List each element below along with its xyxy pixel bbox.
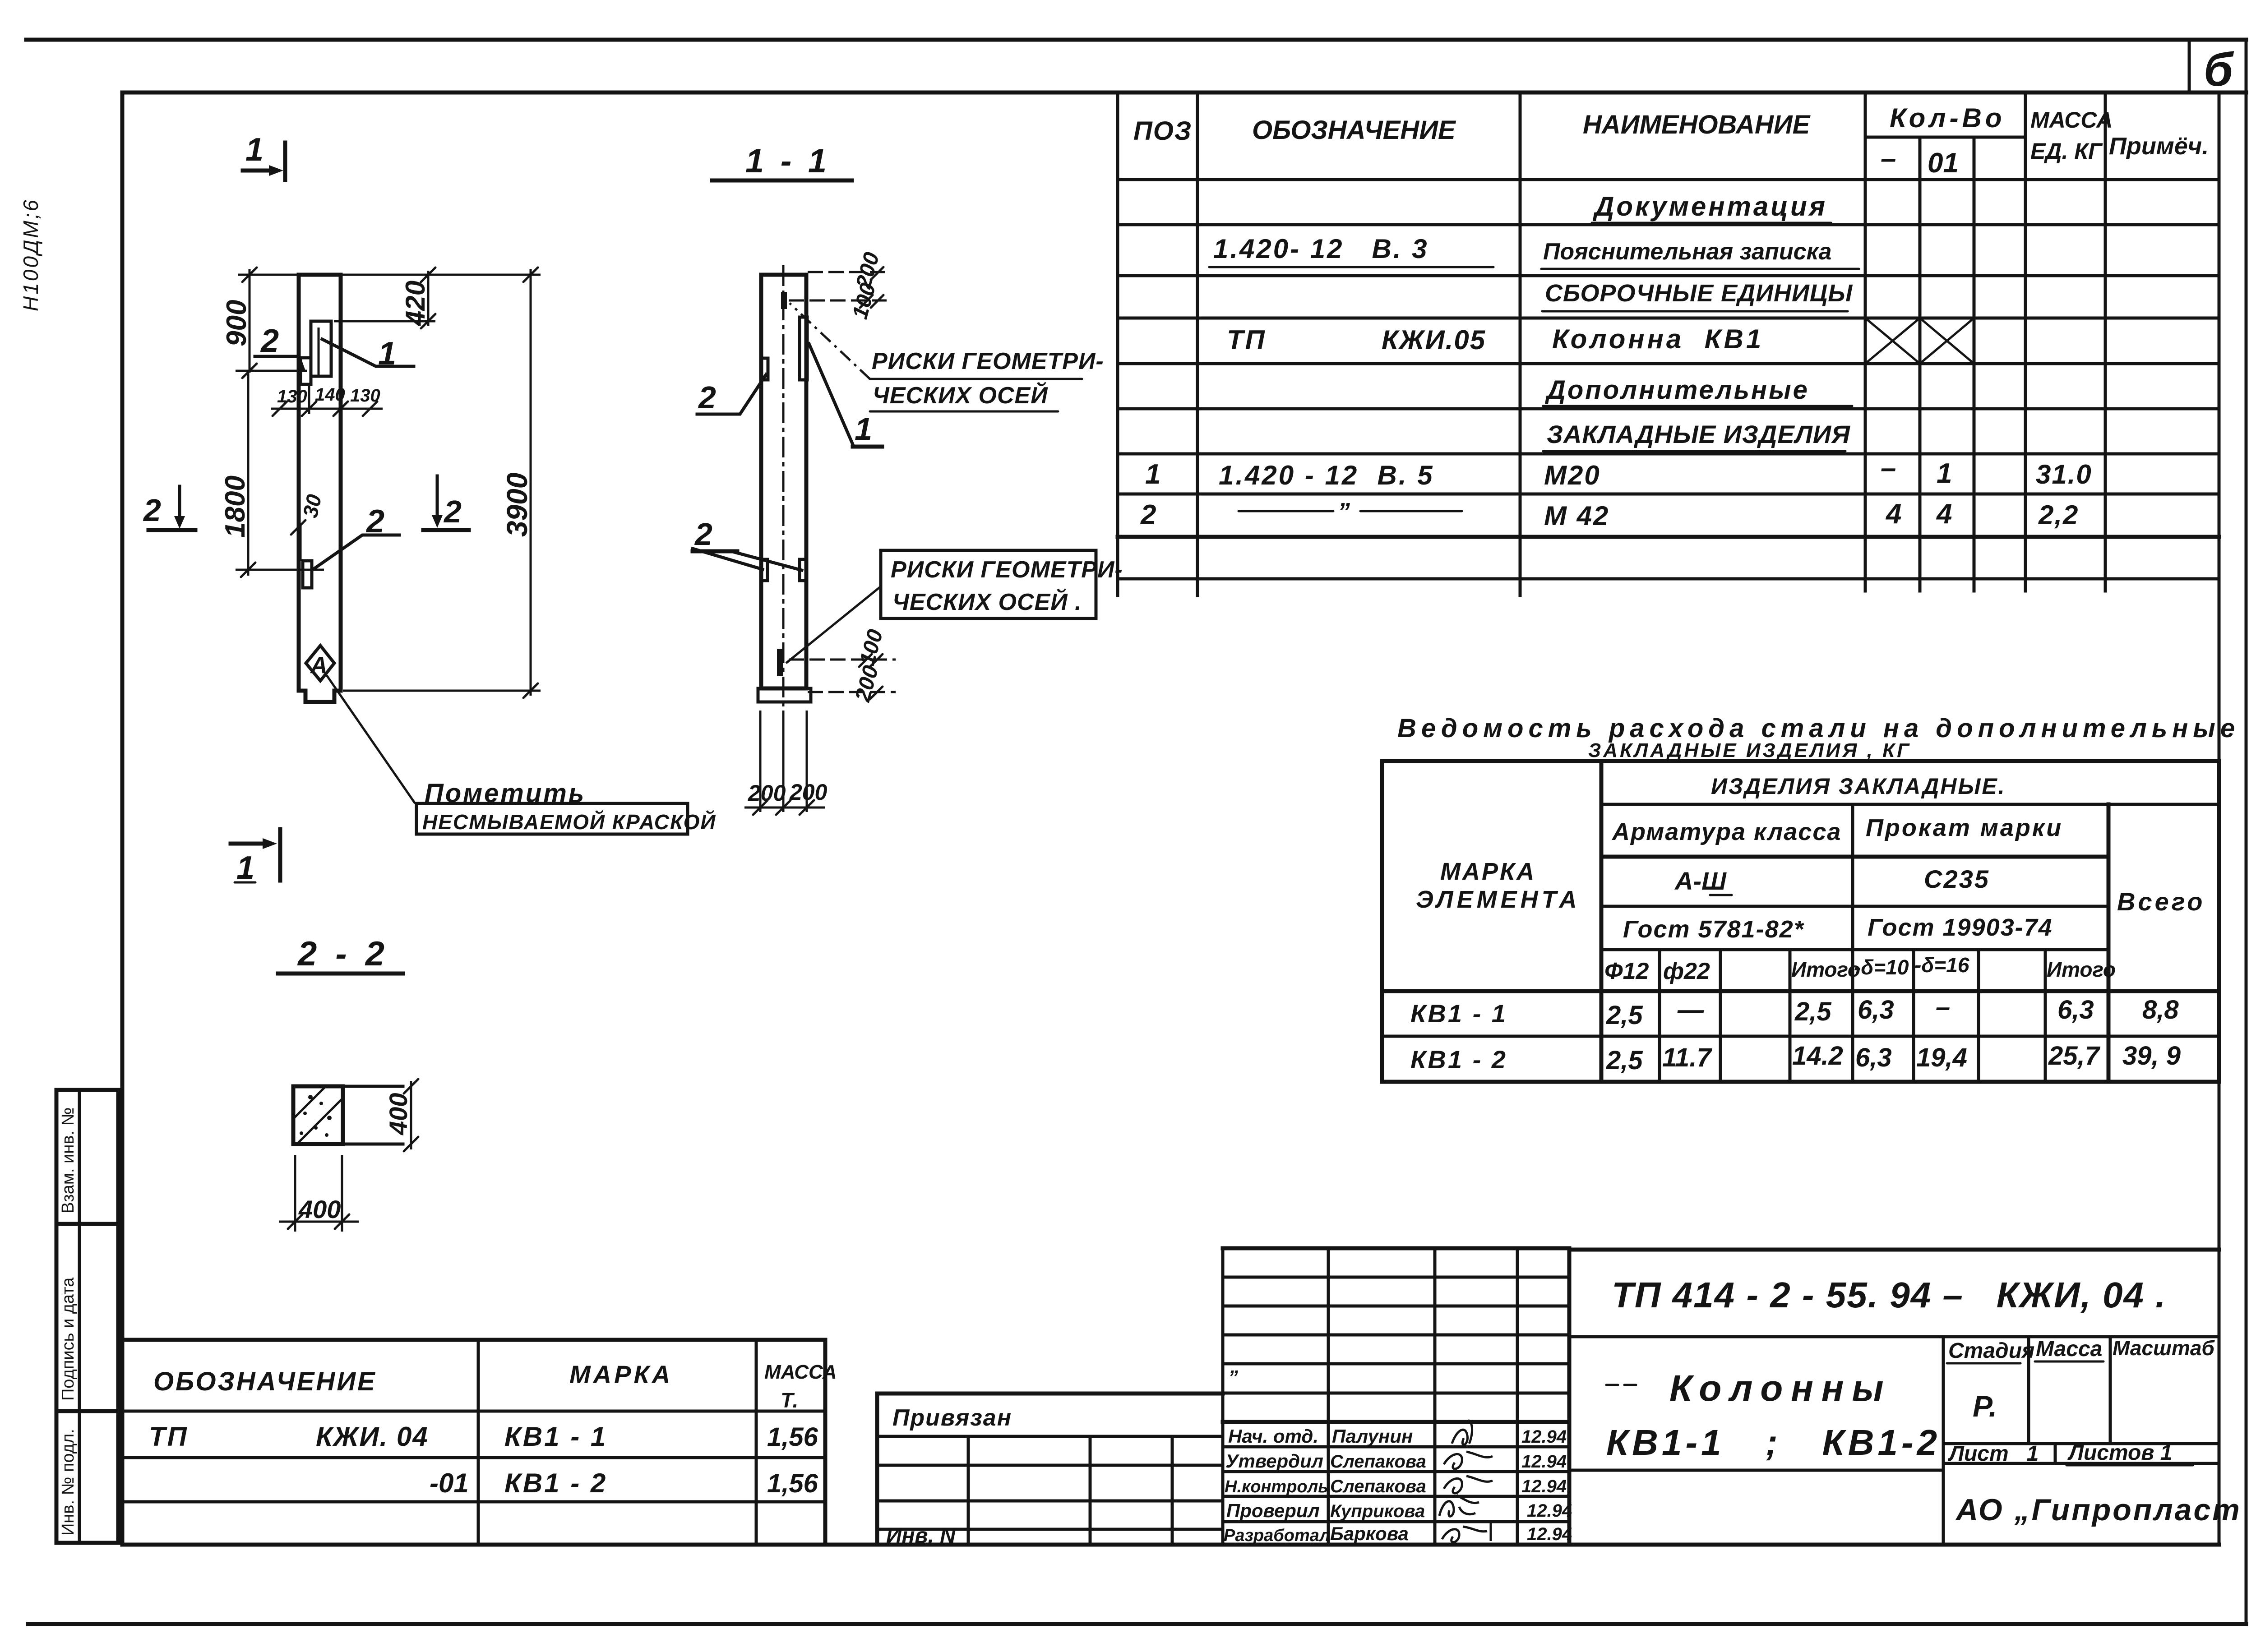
svg-text:Нач. отд.: Нач. отд. <box>1228 1426 1318 1447</box>
embedded item 2 plate top (M42) <box>300 358 311 384</box>
svg-text:ТП 414 - 2 - 55. 94 – КЖИ,: ТП 414 - 2 - 55. 94 – КЖИ, 04 . <box>1612 1275 2166 1315</box>
svg-text:12.94: 12.94 <box>1521 1452 1567 1472</box>
svg-text:1.420- 12 В. 3: 1.420- 12 В. 3 <box>1213 234 1429 264</box>
svg-text:ТП: ТП <box>1227 325 1267 355</box>
svg-text:ЗАКЛАДНЫЕ ИЗДЕЛИЯ: ЗАКЛАДНЫЕ ИЗДЕЛИЯ <box>1547 420 1850 448</box>
svg-text:ЧЕСКИХ ОСЕЙ: ЧЕСКИХ ОСЕЙ <box>873 382 1048 409</box>
svg-text:Баркова: Баркова <box>1330 1523 1409 1544</box>
privyazan inner grid <box>877 1436 1223 1545</box>
svg-text:ОБОЗНАЧЕНИЕ: ОБОЗНАЧЕНИЕ <box>153 1367 377 1396</box>
section cut mark 2 right <box>436 476 439 517</box>
privyazan table outer <box>877 1394 1223 1545</box>
svg-text:Инв. № подл.: Инв. № подл. <box>59 1429 78 1536</box>
dim 400 vertical <box>410 1081 412 1149</box>
left stamp boxes inner vertical <box>78 1090 81 1543</box>
svg-text:1: 1 <box>236 850 254 886</box>
svg-text:Пояснительная записка: Пояснительная записка <box>1543 239 1831 265</box>
svg-text:Итого: Итого <box>1791 958 1860 981</box>
paint note box <box>416 803 688 834</box>
svg-text:8,8: 8,8 <box>2142 995 2179 1024</box>
dim 400 horizontal <box>295 1155 342 1232</box>
svg-text:Масса: Масса <box>2036 1337 2102 1361</box>
svg-text:–: – <box>1881 143 1896 174</box>
svg-text:Стадия: Стадия <box>1948 1339 2034 1363</box>
sheet mark box (б) <box>2188 40 2191 92</box>
bottom extension lines below section <box>760 711 807 812</box>
svg-text:ф22: ф22 <box>1663 958 1710 984</box>
svg-text:Колонны: Колонны <box>1669 1368 1891 1409</box>
svg-text:Всего: Всего <box>2117 887 2205 916</box>
svg-text:А-Ш: А-Ш <box>1674 867 1727 895</box>
lower-left table grid <box>122 1340 825 1545</box>
sheet outer bottom border <box>28 1622 2246 1626</box>
left stamp boxes outer <box>56 1090 118 1543</box>
svg-text:–: – <box>1881 452 1896 484</box>
svg-text:3900: 3900 <box>501 473 533 537</box>
frame left line <box>120 92 125 1545</box>
embedded channel right top <box>800 317 807 380</box>
section 1-1 column foot <box>758 688 811 702</box>
title block outer <box>1569 1250 2219 1545</box>
crossed quantity cells <box>1865 318 1974 364</box>
frame right line <box>2218 92 2221 1545</box>
leader from riska note 2 to bottom mark <box>786 586 881 663</box>
svg-text:14.2: 14.2 <box>1792 1041 1843 1071</box>
svg-text:Листов 1: Листов 1 <box>2067 1441 2172 1465</box>
svg-text:Примёч.: Примёч. <box>2109 133 2209 160</box>
svg-text:ЕД. КГ: ЕД. КГ <box>2030 138 2103 164</box>
svg-text:-01: -01 <box>430 1468 469 1498</box>
svg-text:КВ1 - 2: КВ1 - 2 <box>504 1468 607 1498</box>
svg-text:РИСКИ ГЕОМЕТРИ-: РИСКИ ГЕОМЕТРИ- <box>872 348 1104 374</box>
svg-text:2: 2 <box>1140 499 1156 531</box>
left stamp box dividers <box>56 1224 118 1411</box>
dim 3900 <box>530 269 532 696</box>
svg-text:1: 1 <box>1937 458 1952 489</box>
svg-text:12.94: 12.94 <box>1527 1501 1572 1521</box>
svg-text:ЧЕСКИХ ОСЕЙ .: ЧЕСКИХ ОСЕЙ . <box>892 588 1082 615</box>
section cut mark 1 bottom <box>231 842 264 846</box>
svg-text:Итого: Итого <box>2047 958 2116 981</box>
steel table outer box <box>1382 761 2219 1082</box>
svg-text:ЭЛЕМЕНТА: ЭЛЕМЕНТА <box>1416 886 1581 913</box>
svg-text:С235: С235 <box>1924 865 1990 893</box>
privyazan header row line <box>877 1435 1223 1438</box>
dim 1800 <box>247 373 250 576</box>
svg-text:6,3: 6,3 <box>1855 1043 1892 1072</box>
riska mark bottom <box>777 649 783 676</box>
svg-text:1800: 1800 <box>220 475 251 538</box>
svg-text:Гост 19903-74: Гост 19903-74 <box>1868 914 2053 941</box>
title block line under project number <box>1569 1335 2219 1338</box>
svg-text:31.0: 31.0 <box>2036 459 2092 489</box>
svg-text:АО „Гипропласт: АО „Гипропласт <box>1955 1493 2242 1527</box>
frame top line <box>122 91 2246 95</box>
svg-text:Арматура класса: Арматура класса <box>1611 818 1841 845</box>
dim 420 <box>427 271 430 326</box>
svg-text:12.94‚: 12.94‚ <box>1521 1477 1572 1496</box>
svg-text:Прокат марки: Прокат марки <box>1866 814 2063 841</box>
svg-text:КВ1 - 1: КВ1 - 1 <box>1410 999 1507 1028</box>
svg-text:420: 420 <box>400 281 430 326</box>
svg-text:Разработал: Разработал <box>1224 1526 1330 1545</box>
svg-text:ОБОЗНАЧЕНИЕ: ОБОЗНАЧЕНИЕ <box>1252 115 1456 145</box>
bottom dim line 200 200 <box>744 807 825 809</box>
specification table grid <box>1118 93 2219 595</box>
svg-text:1 - 1: 1 - 1 <box>745 142 830 180</box>
signature table grid <box>1223 1248 1569 1545</box>
svg-text:–: – <box>1936 992 1950 1022</box>
svg-text:Слепакова: Слепакова <box>1330 1477 1426 1496</box>
svg-text:М 42: М 42 <box>1544 501 1609 531</box>
svg-text:СБОРОЧНЫЕ ЕДИНИЦЫ: СБОРОЧНЫЕ ЕДИНИЦЫ <box>1545 280 1853 307</box>
riska mark top <box>781 292 787 309</box>
svg-text:Н.контроль: Н.контроль <box>1225 1477 1328 1496</box>
svg-text:1.420 - 12 В. 5: 1.420 - 12 В. 5 <box>1219 460 1434 490</box>
svg-text:2: 2 <box>260 323 279 359</box>
svg-text:Дополнительные: Дополнительные <box>1544 375 1809 405</box>
svg-text:Ф12: Ф12 <box>1604 958 1649 984</box>
svg-text:КЖИ.05: КЖИ.05 <box>1382 325 1486 355</box>
svg-text:4: 4 <box>1936 498 1952 530</box>
extension line 1800 bottom level <box>236 569 324 571</box>
svg-text:2,2: 2,2 <box>2038 500 2079 530</box>
svg-text:ПОЗ: ПОЗ <box>1133 116 1192 146</box>
svg-text:Инв. N: Инв. N <box>886 1524 956 1548</box>
extension line column bottom to 3900 dim <box>343 690 541 692</box>
svg-text:Куприкова: Куприкова <box>1330 1501 1425 1521</box>
section 1-1 centerline <box>782 265 785 713</box>
section 2-2 right part <box>343 1086 403 1144</box>
svg-text:Документация: Документация <box>1592 191 1827 221</box>
svg-text:-δ=16: -δ=16 <box>1914 953 1969 977</box>
svg-text:900: 900 <box>221 300 252 346</box>
stadia massa masshtab grid <box>1943 1337 2219 1463</box>
svg-text:б: б <box>2204 43 2234 96</box>
svg-text:Т.: Т. <box>781 1389 798 1412</box>
svg-text:2: 2 <box>143 493 161 528</box>
svg-text:12.94: 12.94 <box>1521 1427 1567 1447</box>
section 2-2 hatched square <box>293 1086 343 1144</box>
svg-text:Гост 5781-82*: Гост 5781-82* <box>1623 916 1805 943</box>
svg-text:МАССА: МАССА <box>764 1361 837 1383</box>
svg-text:1: 1 <box>245 132 264 168</box>
svg-text:2,5: 2,5 <box>1606 1046 1643 1075</box>
svg-text:КВ1-1 ; КВ1-2: КВ1-1 ; КВ1-2 <box>1606 1422 1941 1463</box>
svg-text:01: 01 <box>1928 148 1959 179</box>
leader from riska note 1 to top mark <box>790 303 870 379</box>
svg-text:НЕСМЫВАЕМОЙ КРАСКОЙ: НЕСМЫВАЕМОЙ КРАСКОЙ <box>422 810 717 834</box>
riska note 2 box <box>881 550 1096 618</box>
extension line embedded top 420 level <box>334 320 435 323</box>
dim 900 <box>249 269 251 373</box>
svg-text:25,7: 25,7 <box>2048 1041 2101 1071</box>
embedded plate left top <box>761 358 768 380</box>
svg-text:”: ” <box>1338 498 1350 525</box>
frame bottom line <box>122 1543 2219 1547</box>
section 1-1 column outline <box>761 275 806 688</box>
embedded item 2 plate middle (M42) <box>303 561 312 588</box>
marking diamond A <box>306 646 334 681</box>
column elevation outline <box>299 275 341 702</box>
svg-text:400: 400 <box>298 1195 341 1223</box>
svg-text:Слепакова: Слепакова <box>1330 1452 1426 1472</box>
extension line column top <box>238 274 541 276</box>
svg-text:12.94: 12.94 <box>1527 1524 1572 1544</box>
svg-text:Проверил: Проверил <box>1226 1500 1320 1521</box>
svg-text:1,56: 1,56 <box>767 1469 818 1498</box>
svg-text:М20: М20 <box>1544 460 1601 490</box>
svg-text:130: 130 <box>277 387 307 406</box>
sheet outer right border <box>2245 40 2248 1624</box>
steel table grid <box>1382 761 2219 1082</box>
svg-text:КВ1 - 2: КВ1 - 2 <box>1410 1045 1507 1074</box>
svg-text:Палунин: Палунин <box>1332 1426 1413 1447</box>
svg-text:Кол-Во: Кол-Во <box>1890 103 2006 133</box>
svg-text:400: 400 <box>384 1093 412 1135</box>
svg-text:Лист 1: Лист 1 <box>1948 1442 2039 1466</box>
svg-text:Подпись и дата: Подпись и дата <box>59 1277 78 1401</box>
svg-text:6,3: 6,3 <box>2057 995 2094 1024</box>
embedded plate left middle <box>761 559 767 581</box>
svg-text:ИЗДЕЛИЯ ЗАКЛАДНЫЕ.: ИЗДЕЛИЯ ЗАКЛАДНЫЕ. <box>1711 774 2006 799</box>
extension line 900 bottom level <box>236 370 307 372</box>
embedded item 1 (M20) outline <box>311 321 331 376</box>
svg-text:КЖИ. 04: КЖИ. 04 <box>316 1421 429 1452</box>
svg-text:Н100ДМ;6: Н100ДМ;6 <box>19 198 42 311</box>
svg-text:НАИМЕНОВАНИЕ: НАИМЕНОВАНИЕ <box>1583 110 1811 139</box>
svg-text:Привязан: Привязан <box>892 1405 1012 1431</box>
svg-text:2,5: 2,5 <box>1794 997 1831 1026</box>
svg-text:А: А <box>310 652 328 678</box>
svg-text:ЗАКЛАДНЫЕ ИЗДЕЛИЯ , КГ: ЗАКЛАДНЫЕ ИЗДЕЛИЯ , КГ <box>1588 739 1911 761</box>
svg-text:МАССА: МАССА <box>2030 107 2113 133</box>
svg-text:2: 2 <box>694 517 712 552</box>
sheet outer top border <box>26 38 2246 42</box>
svg-text:Ведомость расхода стали на: Ведомость расхода стали на дополнительны… <box>1397 714 2240 743</box>
svg-text:МАРКА: МАРКА <box>1440 858 1536 885</box>
concrete hatch <box>293 1086 343 1144</box>
svg-text:11.7: 11.7 <box>1662 1043 1712 1072</box>
leader from diamond to paint note <box>327 675 415 803</box>
svg-text:Масштаб: Масштаб <box>2113 1336 2215 1360</box>
svg-text:200: 200 <box>748 780 786 806</box>
embedded plate right middle <box>800 559 806 581</box>
svg-text:РИСКИ ГЕОМЕТРИ-: РИСКИ ГЕОМЕТРИ- <box>891 557 1123 583</box>
svg-text:”: ” <box>1228 1366 1238 1389</box>
svg-text:—: — <box>1677 995 1704 1024</box>
svg-text:1: 1 <box>855 411 872 447</box>
svg-text:Р.: Р. <box>1973 1389 1997 1423</box>
svg-text:-δ=10: -δ=10 <box>1854 955 1909 979</box>
title block dash before Колонны <box>1606 1384 1642 1386</box>
svg-text:1,56: 1,56 <box>767 1422 818 1452</box>
svg-text:19,4: 19,4 <box>1916 1043 1967 1072</box>
svg-text:ТП: ТП <box>149 1421 189 1452</box>
lower-left marks table outer <box>122 1340 825 1545</box>
svg-text:4: 4 <box>1885 498 1901 530</box>
svg-text:2 - 2: 2 - 2 <box>297 935 389 973</box>
svg-text:МАРКА: МАРКА <box>569 1360 673 1389</box>
svg-text:6,3: 6,3 <box>1858 995 1894 1024</box>
svg-text:200: 200 <box>789 780 828 805</box>
svg-text:2: 2 <box>698 380 716 415</box>
svg-text:1: 1 <box>1145 459 1160 490</box>
svg-text:39, 9: 39, 9 <box>2122 1041 2181 1071</box>
svg-text:Утвердил: Утвердил <box>1225 1450 1323 1472</box>
svg-text:КВ1 - 1: КВ1 - 1 <box>504 1421 607 1452</box>
title block line under Колонны cell <box>1569 1469 1943 1472</box>
title block vertical split <box>1942 1337 1945 1545</box>
svg-text:Колонна КВ1: Колонна КВ1 <box>1552 324 1764 354</box>
svg-text:2: 2 <box>443 494 462 529</box>
svg-text:Взам. инв. №: Взам. инв. № <box>59 1107 78 1214</box>
svg-text:2,5: 2,5 <box>1606 1001 1643 1030</box>
